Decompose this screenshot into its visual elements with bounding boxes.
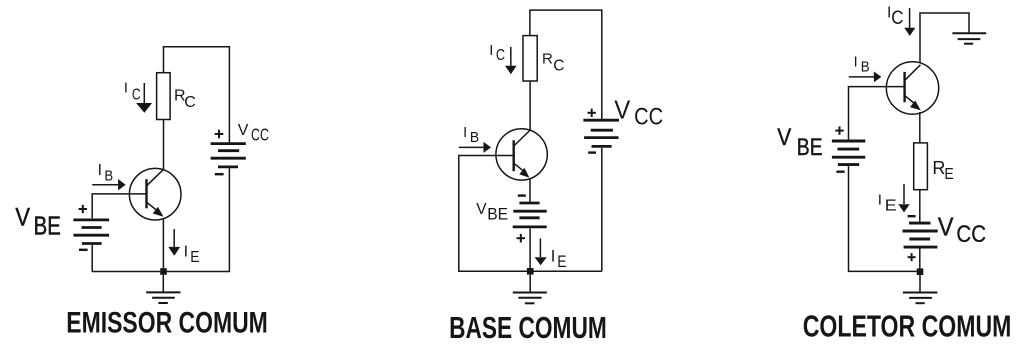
wire: R_C bottom to transistor collector — [163, 120, 165, 170]
battery V_BE (circuit 1) — [73, 220, 109, 244]
transistor Q2 base bar — [513, 140, 515, 171]
svg-text:BE: BE — [797, 134, 823, 161]
svg-text:BE: BE — [34, 213, 61, 241]
arrow I_C (circuit 3, downward) — [904, 8, 915, 36]
plus sign V_CC (circuit 1) — [215, 130, 224, 139]
svg-text:V: V — [238, 122, 249, 139]
wire: V_BE bottom to bottom rail (circuit 1) — [92, 245, 160, 272]
wire: collector up and right to ground (circuit 3) — [920, 13, 969, 64]
label I_E (circuit 3) — [878, 192, 897, 215]
label V_BE (circuit 2) — [476, 201, 508, 223]
wire: R_C bottom to transistor collector (circuit 2) — [529, 81, 531, 130]
junction dot (circuit 2 bottom rail) — [527, 268, 534, 275]
transistor Q2 circle — [496, 129, 547, 180]
battery V_CC (circuit 3) — [903, 223, 938, 247]
svg-text:I: I — [489, 43, 493, 59]
label I_B (circuit 3) — [854, 55, 870, 76]
minus sign V_CC (circuit 2) — [588, 151, 596, 153]
arrow I_C (circuit 1, downward) — [136, 83, 152, 113]
transistor Q3 base bar — [903, 72, 905, 102]
transistor Q3 emitter diagonal with arrow — [905, 96, 921, 111]
arrow I_C (circuit 2, downward) — [505, 47, 517, 74]
battery V_BE (circuit 2) — [513, 203, 547, 227]
minus sign V_BE (circuit 1) — [79, 249, 88, 251]
wire: V_BE bottom to bottom rail (circuit 3) — [849, 166, 917, 271]
svg-text:R: R — [542, 51, 553, 68]
plus sign V_CC (circuit 3) — [908, 253, 916, 261]
minus sign V_CC (circuit 3) — [908, 215, 916, 217]
battery V_CC (circuit 1) — [211, 144, 246, 167]
svg-text:I: I — [551, 248, 556, 266]
wire: top wire R_C top to V_CC top (circuit 2) — [530, 10, 602, 120]
label I_C (circuit 3) — [887, 4, 904, 29]
svg-text:C: C — [891, 8, 903, 29]
svg-text:V: V — [938, 211, 954, 241]
minus sign V_BE (circuit 2) — [518, 194, 526, 196]
svg-text:B: B — [104, 168, 113, 185]
arrow I_B (circuit 3, rightward) — [849, 72, 882, 83]
arrow I_E (circuit 3, downward) — [898, 184, 909, 212]
svg-text:C: C — [496, 47, 505, 64]
plus sign V_BE (circuit 2) — [517, 234, 525, 243]
wire: V_CC bottom to bottom rail (circuit 1) — [167, 168, 230, 271]
label V_CC (circuit 2) — [614, 97, 663, 131]
svg-text:I: I — [98, 162, 102, 179]
svg-text:E: E — [885, 198, 897, 215]
minus sign V_BE (circuit 3) — [836, 170, 844, 172]
svg-text:E: E — [190, 249, 199, 266]
minus sign V_CC (circuit 1) — [215, 173, 224, 175]
label I_B (circuit 2) — [463, 125, 479, 146]
label R_C (circuit 1) — [174, 88, 196, 111]
svg-text:BASE COMUM: BASE COMUM — [449, 310, 607, 345]
wire: R_E bottom to V_CC battery (circuit 3) — [919, 189, 921, 222]
battery V_BE (circuit 3) — [832, 141, 865, 165]
label I_E (circuit 1) — [184, 243, 200, 266]
wire: V_BE bottom to bottom rail (circuit 2) — [529, 228, 531, 271]
svg-text:BE: BE — [487, 205, 508, 223]
plus sign V_BE (circuit 3) — [835, 126, 843, 134]
wire: emitter down to R_E (circuit 3) — [919, 112, 921, 143]
plus sign V_CC (circuit 2) — [588, 109, 596, 117]
wire: V_CC bottom to bottom rail (circuit 2) — [601, 148, 603, 271]
svg-text:I: I — [878, 192, 882, 209]
resistor R_C (circuit 1) — [157, 73, 171, 120]
svg-text:CC: CC — [251, 125, 269, 145]
transistor Q1 circle — [129, 168, 181, 220]
label V_BE (circuit 3) — [777, 124, 822, 161]
svg-text:I: I — [854, 55, 858, 71]
svg-text:I: I — [124, 81, 128, 97]
label I_C (circuit 1) — [124, 81, 141, 104]
wire: base left and down to V_BE battery (circuit 3) — [849, 87, 905, 140]
label V_BE (circuit 1) — [15, 203, 60, 240]
svg-text:C: C — [184, 94, 196, 111]
svg-text:E: E — [557, 253, 566, 271]
svg-text:CC: CC — [634, 103, 663, 130]
svg-text:V: V — [15, 203, 30, 231]
svg-text:C: C — [132, 86, 141, 103]
svg-text:EMISSOR COMUM: EMISSOR COMUM — [66, 306, 267, 339]
svg-text:V: V — [476, 201, 487, 218]
transistor Q3 circle — [886, 62, 938, 114]
wire: V_CC bottom to junction (circuit 3) — [919, 248, 921, 271]
svg-text:I: I — [184, 243, 188, 260]
ground (circuit 3 bottom) — [903, 275, 938, 303]
label V_CC (circuit 1) — [238, 122, 269, 145]
svg-text:B: B — [861, 60, 870, 76]
transistor Q2 collector diagonal — [514, 130, 530, 146]
arrow I_E (circuit 2, downward) — [535, 238, 547, 265]
label I_C (circuit 2) — [489, 43, 505, 64]
svg-text:CC: CC — [956, 221, 986, 248]
wire: base left and down to bottom rail (circuit 2) — [459, 156, 602, 272]
arrow I_B (circuit 1, rightward) — [92, 179, 125, 190]
transistor Q1 emitter diagonal with arrow — [147, 202, 164, 217]
resistor R_C (circuit 2) — [523, 36, 537, 81]
svg-text:COLETOR COMUM: COLETOR COMUM — [803, 309, 1012, 344]
wire: top wire R_C top to V_CC top — [164, 47, 230, 144]
svg-text:B: B — [470, 130, 479, 146]
transistor Q2 emitter diagonal with arrow — [514, 163, 530, 177]
wire: base to V_BE battery (circuit 1) — [92, 194, 146, 218]
transistor Q1 base bar — [145, 179, 147, 208]
junction dot (circuit 3 bottom rail) — [917, 268, 924, 275]
wire: emitter down to bottom rail (circuit 1) — [162, 218, 164, 272]
arrow I_B (circuit 2, rightward) — [459, 142, 491, 153]
svg-text:C: C — [553, 57, 564, 74]
label I_E (circuit 2) — [551, 248, 567, 272]
arrow I_E (circuit 1, downward) — [168, 229, 180, 256]
label R_E (circuit 3) — [932, 158, 953, 183]
junction dot (circuit 1 bottom rail) — [160, 268, 167, 275]
svg-text:E: E — [944, 166, 953, 183]
svg-text:I: I — [463, 125, 467, 141]
wire: emitter down to V_BE battery (circuit 2) — [529, 179, 531, 203]
ground (circuit 3 top right) — [952, 33, 986, 44]
ground (circuit 1) — [146, 275, 180, 303]
label R_C (circuit 2) — [542, 51, 564, 75]
resistor R_E (circuit 3) — [914, 143, 928, 190]
plus sign V_BE (circuit 1) — [79, 205, 87, 213]
svg-text:V: V — [777, 124, 792, 151]
label I_B (circuit 1) — [98, 162, 114, 185]
battery V_CC (circuit 2) — [583, 120, 619, 146]
transistor Q3 collector diagonal — [905, 65, 921, 81]
ground (circuit 2) — [513, 275, 547, 304]
label V_CC (circuit 3) — [938, 211, 986, 248]
transistor Q1 collector diagonal — [147, 169, 164, 186]
